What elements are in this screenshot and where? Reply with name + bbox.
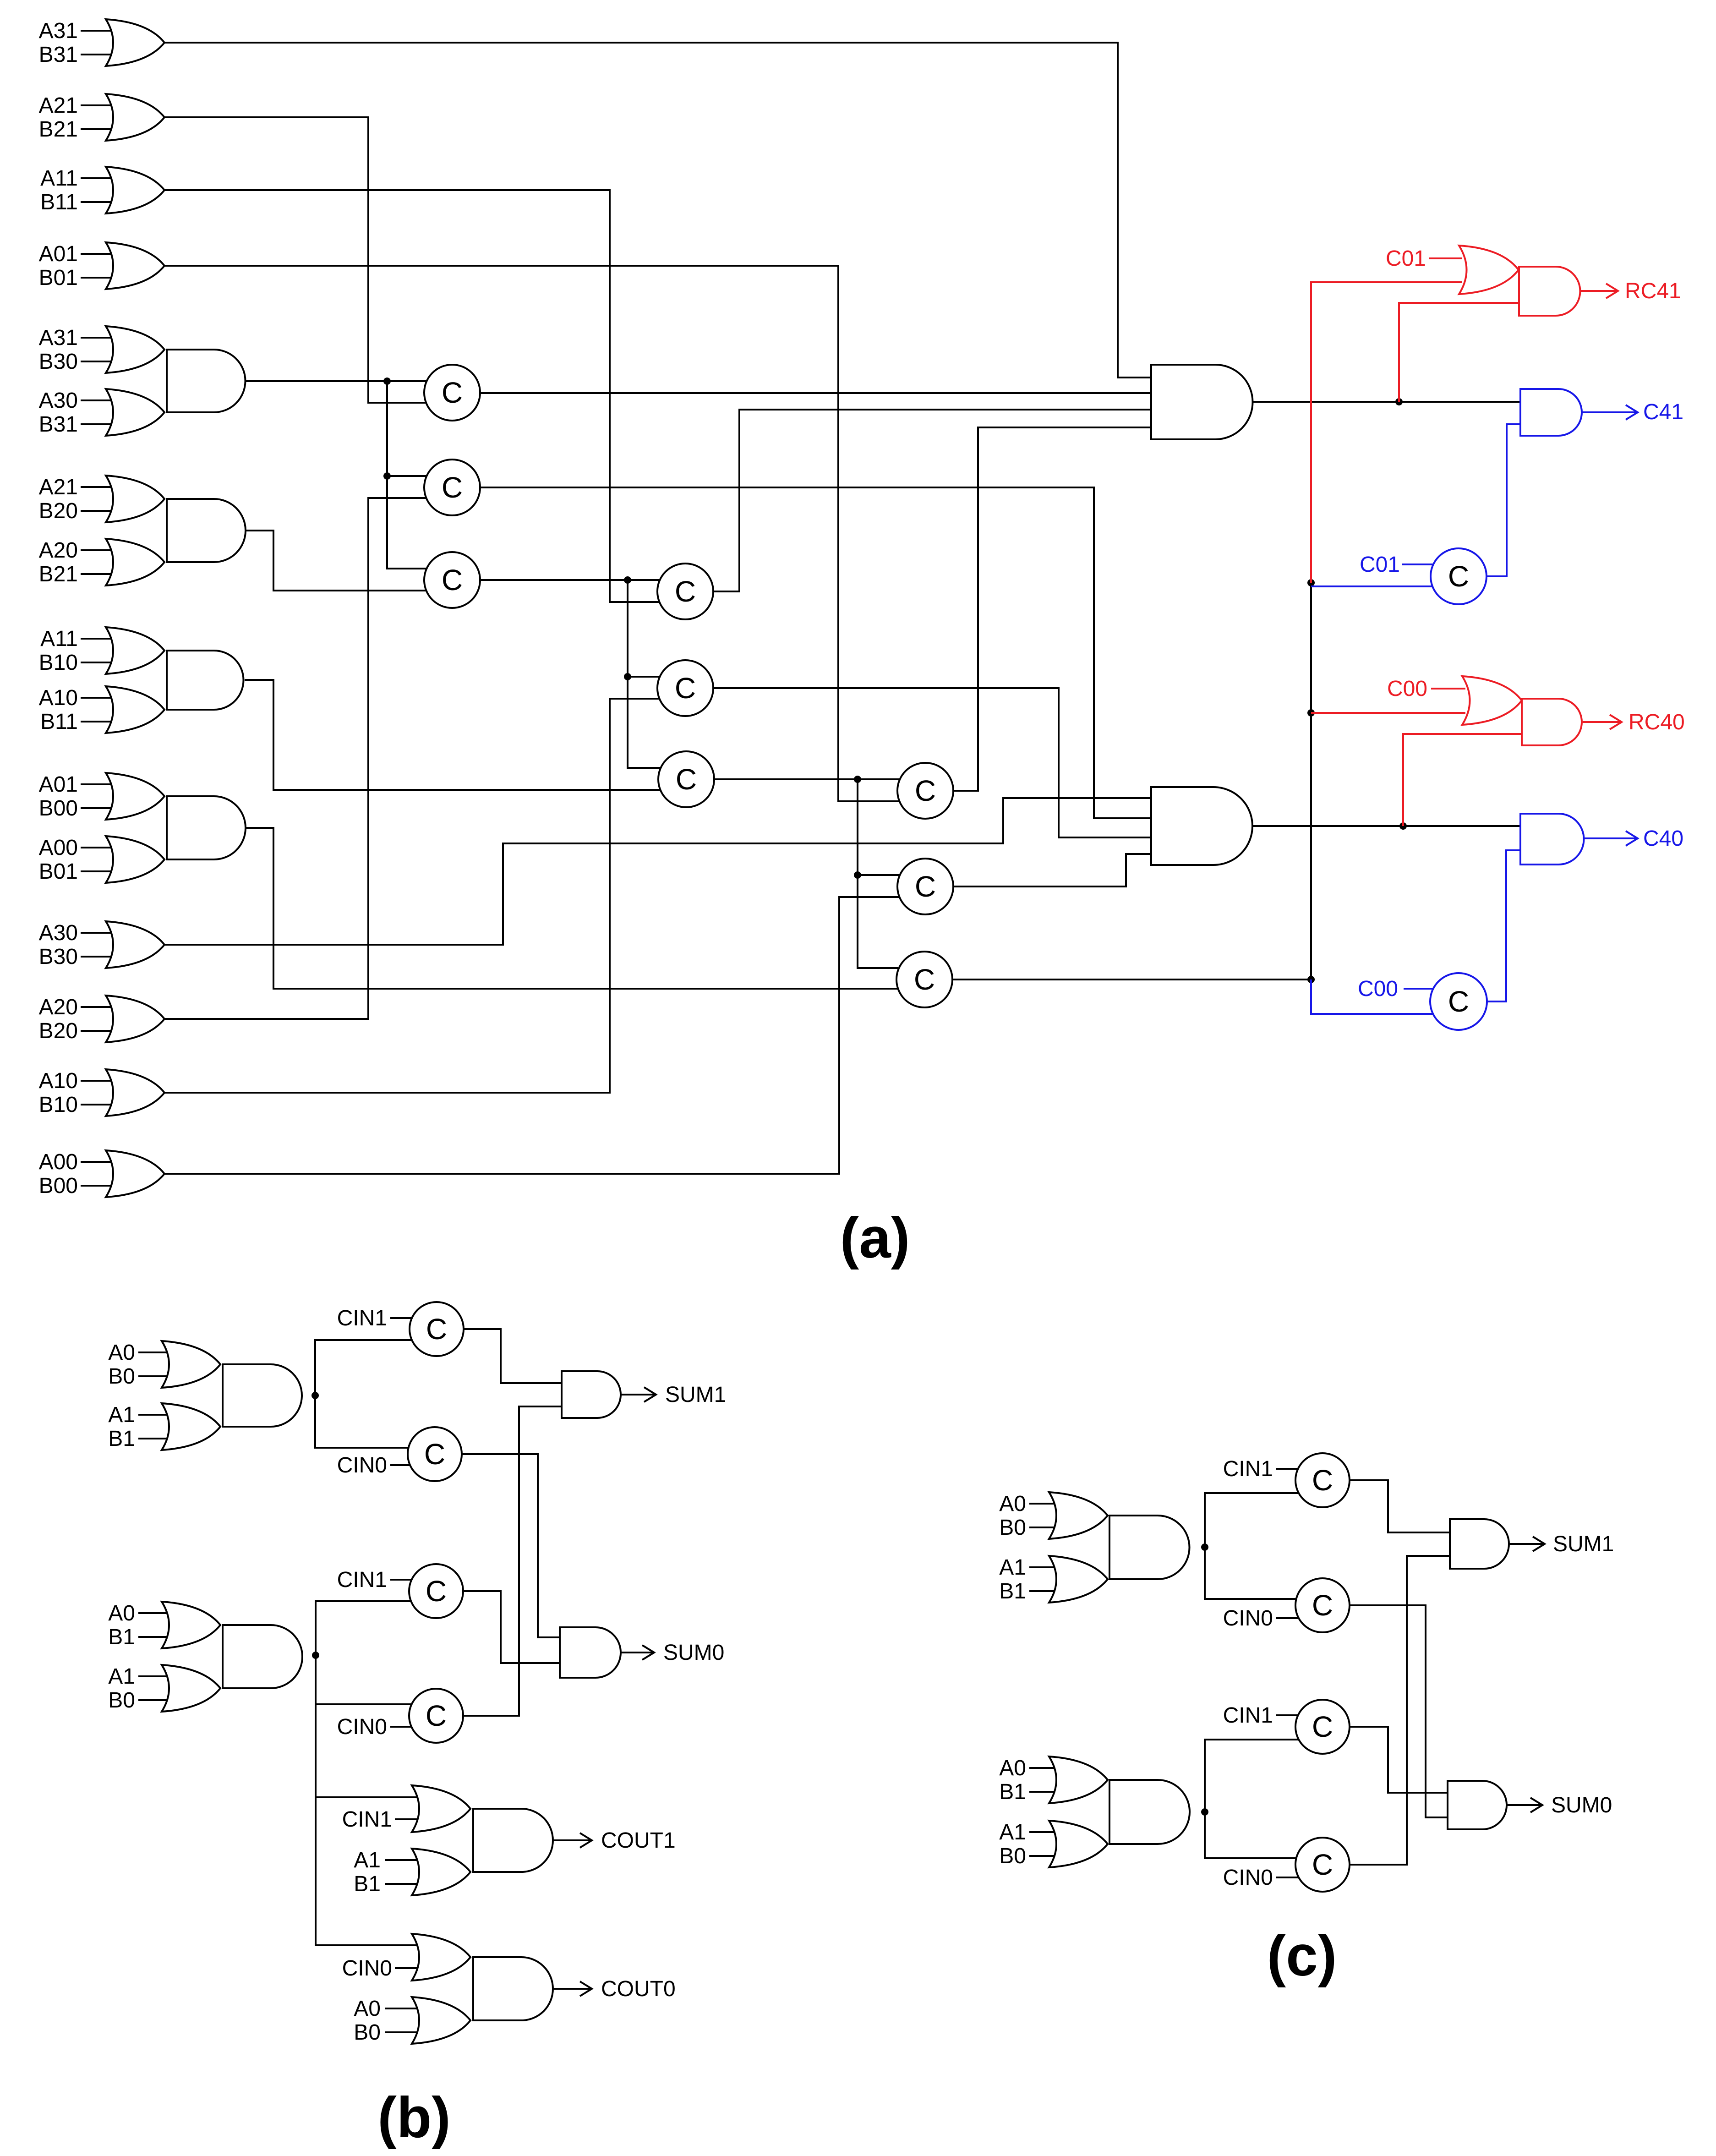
wire SUM0 arrow xyxy=(619,1645,654,1660)
wire C23 net down to C32.in1 xyxy=(858,779,899,875)
carry cell C01 (blue) xyxy=(1431,548,1486,604)
or-gate A11|B11 xyxy=(106,167,164,213)
svg-text:A31: A31 xyxy=(39,326,78,350)
wire input stub B00 P4 xyxy=(81,807,118,809)
wire C23 out to C31.in1 xyxy=(714,778,899,780)
svg-text:(c): (c) xyxy=(1267,1924,1337,1988)
or-gate c1b xyxy=(1049,1556,1108,1603)
wire b1 branch to CIN1a xyxy=(315,1340,413,1395)
wire row A11|B11 to C21.in2 xyxy=(164,190,660,602)
or-gate c2b xyxy=(1049,1821,1108,1867)
svg-text:C00: C00 xyxy=(1358,977,1398,1001)
carry cell CIN1a xyxy=(410,1302,464,1356)
or-gate A00|B00 low xyxy=(106,1150,164,1197)
wire CIN0 stub cout0 xyxy=(395,1967,442,1969)
wire input stub B01 P4 xyxy=(81,870,118,872)
svg-text:A1: A1 xyxy=(108,1403,135,1427)
svg-text:CIN0: CIN0 xyxy=(337,1453,387,1477)
wire N4 to C01-cell.in2 xyxy=(1311,586,1433,587)
junction N4/C33-out xyxy=(1307,976,1315,983)
and-gate P2 xyxy=(167,499,246,562)
svg-text:A01: A01 xyxy=(39,242,78,266)
svg-text:CIN1: CIN1 xyxy=(337,1568,387,1592)
svg-text:COUT0: COUT0 xyxy=(601,1977,676,2001)
wire input stub B31 xyxy=(81,54,118,55)
svg-text:SUM1: SUM1 xyxy=(665,1383,726,1407)
and-gate c1 xyxy=(1109,1516,1190,1579)
svg-text:C: C xyxy=(675,575,696,608)
svg-text:SUM0: SUM0 xyxy=(1551,1793,1612,1817)
svg-text:B10: B10 xyxy=(39,651,78,675)
wire N4 red riser to RC41-OR.in2 xyxy=(1311,282,1462,583)
svg-text:C: C xyxy=(426,1313,447,1346)
wire C01 stub to C01-cell xyxy=(1402,564,1433,565)
or-gate COUT1-OR2 xyxy=(412,1849,470,1895)
junction N4/RC40-OR xyxy=(1307,709,1315,717)
svg-text:A01: A01 xyxy=(39,772,78,797)
wire input stub B0 b1 xyxy=(138,1375,175,1377)
or-gate A01|B00 xyxy=(106,773,164,820)
wire b2 branch to CIN0b xyxy=(316,1655,411,1704)
svg-text:B31: B31 xyxy=(39,412,78,437)
wire c1 branch to CIN1c xyxy=(1205,1493,1299,1547)
svg-text:C: C xyxy=(1448,985,1469,1018)
svg-text:CIN0: CIN0 xyxy=(337,1715,387,1739)
svg-text:C: C xyxy=(675,672,696,705)
svg-text:A30: A30 xyxy=(39,389,78,413)
wire C23 net down to C33.in1 xyxy=(858,875,898,968)
or-gate COUT0-OR2 xyxy=(412,1997,470,2044)
junction C13-net/C21 xyxy=(624,576,631,584)
carry cell CIN0d xyxy=(1295,1838,1350,1892)
wire CIN0c out to SUM0c.in2 xyxy=(1350,1605,1448,1817)
wire input stub B30 P1 xyxy=(81,361,118,362)
junction G40-out/RC40 xyxy=(1399,822,1407,830)
or-gate c2a xyxy=(1049,1757,1108,1803)
carry cell CIN0c xyxy=(1295,1578,1350,1632)
and-gate COUT0 xyxy=(473,1957,553,2020)
svg-text:B0: B0 xyxy=(108,1688,135,1713)
wire row A00|B00 to C32.in2 xyxy=(164,897,899,1174)
svg-text:C41: C41 xyxy=(1643,400,1683,424)
and-gate c2 xyxy=(1109,1780,1190,1844)
wire input stub B20 P2 xyxy=(81,510,118,512)
wire SUM0c arrow xyxy=(1507,1798,1542,1812)
svg-text:C01: C01 xyxy=(1386,246,1426,271)
wire COUT1 arrow xyxy=(553,1833,592,1848)
wire A1 stub cout1 xyxy=(385,1859,442,1861)
wire input stub A20 P2 xyxy=(81,549,118,551)
svg-text:SUM0: SUM0 xyxy=(663,1641,724,1665)
svg-text:A10: A10 xyxy=(39,1069,78,1093)
svg-text:B1: B1 xyxy=(354,1872,381,1896)
or-gate A20|B20 low xyxy=(106,996,164,1042)
carry cell C13 xyxy=(424,552,480,608)
svg-text:B1: B1 xyxy=(108,1625,135,1649)
svg-text:(b): (b) xyxy=(377,2086,451,2150)
wire input stub B1 c2 xyxy=(1029,1791,1066,1793)
wire C32 out to G40.in4 xyxy=(953,854,1151,886)
svg-text:B31: B31 xyxy=(39,43,78,67)
wire RC40 output arrow xyxy=(1583,715,1622,729)
carry cell CIN0b xyxy=(409,1689,463,1743)
wire CIN0 stub d xyxy=(1276,1877,1299,1878)
svg-text:A1: A1 xyxy=(999,1820,1026,1844)
wire C21 out to G41.in3 xyxy=(713,410,1151,591)
wire input stub A0 c2 xyxy=(1029,1767,1066,1769)
carry cell C22 xyxy=(657,660,713,716)
wire P1 out to C11.in1 xyxy=(245,380,426,382)
wire input stub B21 P2 xyxy=(81,573,118,575)
wire input stub B0 b2 xyxy=(138,1699,175,1701)
or-gate A00|B01 xyxy=(106,836,164,883)
and-gate b1 xyxy=(223,1364,302,1427)
svg-text:C: C xyxy=(442,471,463,504)
and-gate G40 (4-input) xyxy=(1151,787,1252,865)
svg-text:COUT1: COUT1 xyxy=(601,1828,676,1853)
wire CIN0 stub c xyxy=(1276,1617,1299,1619)
svg-text:(a): (a) xyxy=(840,1206,910,1270)
svg-text:B30: B30 xyxy=(39,945,78,969)
or-gate RC40-OR (red) xyxy=(1462,676,1522,725)
wire CIN1c out to SUM1c.in1 xyxy=(1350,1480,1450,1532)
svg-text:C: C xyxy=(442,564,463,596)
wire input stub A0 b2 xyxy=(138,1612,175,1614)
wire input stub A11 xyxy=(81,177,118,179)
wire CIN1b out to SUM0.in2 xyxy=(463,1591,560,1663)
wire input stub A0 c1 xyxy=(1029,1503,1066,1505)
or-gate A21|B21 xyxy=(106,94,164,141)
wire N4 to RC40-OR.in2 xyxy=(1311,712,1465,714)
or-gate COUT0-OR1 xyxy=(412,1934,470,1981)
or-gate A30|B30 low xyxy=(106,921,164,968)
svg-text:A0: A0 xyxy=(354,1997,381,2021)
and-gate C40-AND (blue) xyxy=(1520,814,1584,865)
wire P4 out to C33.in2 xyxy=(245,828,898,989)
wire CIN0 stub a xyxy=(390,1464,411,1466)
wire input stub A01 xyxy=(81,253,118,255)
wire C12 out to G40.in2 xyxy=(480,487,1151,818)
and-gate P3 xyxy=(167,651,244,710)
svg-text:CIN1: CIN1 xyxy=(342,1807,392,1832)
junction G41-out/RC41 xyxy=(1395,398,1403,405)
or-gate b2a xyxy=(162,1602,220,1648)
junction b2 out xyxy=(312,1652,319,1659)
svg-text:C: C xyxy=(914,963,935,996)
wire row A20|B20 to C12.in2 xyxy=(164,498,426,1019)
svg-text:A00: A00 xyxy=(39,1150,78,1174)
svg-text:B0: B0 xyxy=(108,1364,135,1389)
wire input stub B21 xyxy=(81,128,118,130)
or-gate A31|B30 xyxy=(106,326,164,373)
svg-text:A1: A1 xyxy=(999,1555,1026,1580)
svg-text:B1: B1 xyxy=(999,1780,1026,1804)
svg-text:C: C xyxy=(1448,560,1469,593)
svg-text:C: C xyxy=(442,376,463,409)
wire input stub B11 xyxy=(81,201,118,203)
wire C41 output arrow xyxy=(1582,405,1638,420)
junction P1-net/C12 xyxy=(383,472,391,480)
and-gate P4 xyxy=(167,796,246,859)
wire input stub A21 xyxy=(81,104,118,106)
svg-text:C00: C00 xyxy=(1387,677,1427,701)
wire B0 stub cout0 xyxy=(385,2031,442,2033)
and-gate b2 xyxy=(223,1625,302,1688)
wire A0 stub cout0 xyxy=(385,2008,442,2009)
wire CIN1 stub c xyxy=(1276,1468,1299,1470)
svg-text:C: C xyxy=(1312,1848,1333,1881)
svg-text:B20: B20 xyxy=(39,1019,78,1043)
wire input stub A00 low xyxy=(81,1161,118,1163)
or-gate A10|B11 xyxy=(106,686,164,733)
wire P2 out to C13.in2 xyxy=(245,531,426,591)
wire CIN1a out to SUM1.in1 xyxy=(464,1329,562,1383)
svg-text:B01: B01 xyxy=(39,266,78,290)
svg-text:B21: B21 xyxy=(39,562,78,586)
carry cell C21 xyxy=(657,564,713,619)
and-gate RC41-AND (red) xyxy=(1519,267,1580,316)
svg-text:B0: B0 xyxy=(999,1844,1026,1868)
wire c2 branch to CIN0d xyxy=(1205,1812,1299,1858)
svg-text:CIN1: CIN1 xyxy=(1223,1457,1273,1481)
or-gate A11|B10 xyxy=(106,627,164,674)
and-gate SUM1c xyxy=(1450,1519,1509,1569)
carry cell C00 (blue) xyxy=(1430,973,1487,1030)
svg-text:C: C xyxy=(426,1699,447,1732)
wire input stub A1 c1 xyxy=(1029,1566,1066,1568)
wire CIN0d out to SUM1c.in2 xyxy=(1350,1556,1450,1865)
or-gate c1a xyxy=(1049,1492,1108,1539)
carry cell C11 xyxy=(424,365,480,421)
wire c2 branch to CIN1d xyxy=(1205,1740,1299,1812)
wire b2 net down to COUT1-OR.in1 xyxy=(316,1704,442,1797)
svg-text:A0: A0 xyxy=(108,1341,135,1365)
wire input stub B00 low xyxy=(81,1185,118,1187)
svg-text:A31: A31 xyxy=(39,19,78,43)
and-gate COUT1 xyxy=(473,1809,553,1872)
wire C11 out to G41.in2 xyxy=(480,392,1151,394)
wire CIN0a out to SUM0.in1 xyxy=(462,1454,560,1637)
svg-text:B11: B11 xyxy=(40,710,78,734)
svg-text:B0: B0 xyxy=(354,2020,381,2045)
wire CIN0b out to SUM1.in2 xyxy=(463,1406,562,1716)
wire input stub A10 P3 xyxy=(81,697,118,699)
wire N4 blue drop to C00-cell.in2 xyxy=(1311,980,1433,1014)
svg-text:CIN0: CIN0 xyxy=(1223,1606,1273,1631)
wire B1 stub cout1 xyxy=(385,1883,442,1885)
wire C31 out to G41.in4 xyxy=(953,427,1151,791)
svg-text:CIN1: CIN1 xyxy=(337,1306,387,1330)
svg-text:B01: B01 xyxy=(39,859,78,884)
wire input stub B0 c1 xyxy=(1029,1527,1066,1528)
svg-text:B00: B00 xyxy=(39,796,78,821)
wire G41 out to C41-AND.in1 xyxy=(1252,401,1520,403)
wire input stub A31 xyxy=(81,30,118,32)
or-gate A01|B01 xyxy=(106,242,164,289)
wire input stub A1 c2 xyxy=(1029,1831,1066,1833)
carry cell CIN1d xyxy=(1295,1700,1350,1754)
wire input stub A11 P3 xyxy=(81,638,118,640)
wire b2 net down to COUT0-OR.in1 xyxy=(316,1797,442,1945)
wire b2 branch to CIN1b xyxy=(316,1601,413,1655)
wire row A10|B10 to C22.in2 xyxy=(164,699,660,1093)
svg-text:A11: A11 xyxy=(40,166,78,191)
carry cell C33 xyxy=(896,952,952,1007)
wire input stub B01 xyxy=(81,277,118,279)
svg-text:CIN1: CIN1 xyxy=(1223,1703,1273,1728)
carry cell CIN0a xyxy=(408,1427,462,1481)
svg-text:C: C xyxy=(915,774,936,807)
svg-text:B1: B1 xyxy=(999,1579,1026,1603)
carry cell CIN1b xyxy=(409,1564,463,1618)
wire CIN1 stub b xyxy=(390,1579,413,1581)
wire COUT0 arrow xyxy=(553,1981,592,1996)
wire C00 stub to C00-cell xyxy=(1404,988,1433,990)
or-gate A10|B10 low xyxy=(106,1069,164,1116)
wire G41-out red branch to RC41-AND.in2 xyxy=(1399,303,1522,402)
and-gate P1 xyxy=(167,350,246,412)
svg-text:B11: B11 xyxy=(40,190,78,214)
wire SUM1c arrow xyxy=(1509,1537,1545,1551)
wire C13 net down to C22.in1 xyxy=(628,580,660,677)
and-gate SUM0c xyxy=(1448,1781,1507,1829)
wire input stub A0 b1 xyxy=(138,1352,175,1353)
carry cell C32 xyxy=(897,859,953,914)
svg-text:A1: A1 xyxy=(108,1664,135,1689)
svg-text:C: C xyxy=(1312,1710,1333,1743)
wire CIN1 stub a xyxy=(390,1317,413,1319)
or-gate A20|B21 xyxy=(106,539,164,586)
or-gate A30|B31 xyxy=(106,389,164,436)
and-gate SUM1b xyxy=(562,1371,621,1418)
svg-text:A0: A0 xyxy=(999,1756,1026,1780)
and-gate SUM0b xyxy=(560,1627,621,1678)
wire input stub A01 P4 xyxy=(81,783,118,785)
wire input stub B11 P3 xyxy=(81,721,118,722)
svg-text:CIN0: CIN0 xyxy=(342,1956,392,1981)
svg-text:B30: B30 xyxy=(39,350,78,374)
wire input stub B10 P3 xyxy=(81,662,118,663)
junction c2 out xyxy=(1201,1808,1208,1816)
svg-text:A1: A1 xyxy=(354,1848,381,1872)
wire CIN1d out to SUM0c.in1 xyxy=(1350,1727,1448,1793)
wire input stub A10 low xyxy=(81,1080,118,1082)
or-gate b1b xyxy=(162,1403,220,1450)
junction C13-net/C22 xyxy=(624,673,631,680)
wire input stub B20 low xyxy=(81,1030,118,1032)
wire input stub A1 b2 xyxy=(138,1675,175,1677)
wire input stub A00 P4 xyxy=(81,847,118,848)
or-gate A31|B31 xyxy=(106,19,164,66)
svg-text:B00: B00 xyxy=(39,1174,78,1198)
svg-text:SUM1: SUM1 xyxy=(1553,1532,1614,1556)
junction P1-net/C11 xyxy=(383,378,391,385)
or-gate b2b xyxy=(162,1665,220,1712)
wire P1 net down to C13.in1 xyxy=(387,476,426,569)
svg-text:C: C xyxy=(915,870,936,903)
wire input stub B31 P1 xyxy=(81,423,118,425)
svg-text:A10: A10 xyxy=(39,686,78,710)
svg-text:A20: A20 xyxy=(39,538,78,563)
wire CIN0 stub b xyxy=(390,1726,411,1728)
svg-text:B1: B1 xyxy=(108,1427,135,1451)
wire node N4 riser (black) xyxy=(1310,583,1312,980)
wire CIN1 stub d xyxy=(1276,1714,1299,1716)
carry cell C31 xyxy=(897,763,953,819)
wire input stub B10 low xyxy=(81,1104,118,1105)
wire input stub A31 P1 xyxy=(81,337,118,339)
svg-text:C: C xyxy=(1312,1589,1333,1622)
wire input stub B0 c2 xyxy=(1029,1855,1066,1857)
wire input stub B30 low xyxy=(81,956,118,958)
junction N4/C01-cell xyxy=(1307,579,1315,586)
svg-text:C: C xyxy=(424,1438,445,1471)
wire C13 net down to C23.in1 xyxy=(628,677,661,768)
svg-text:C: C xyxy=(426,1575,447,1608)
wire G40-out red branch to RC40-AND.in2 xyxy=(1403,734,1525,826)
junction C23-net/C31 xyxy=(854,776,861,783)
svg-text:B0: B0 xyxy=(999,1516,1026,1540)
svg-text:RC41: RC41 xyxy=(1625,279,1681,303)
svg-text:A00: A00 xyxy=(39,836,78,860)
or-gate COUT1-OR1 xyxy=(412,1785,470,1832)
svg-text:C40: C40 xyxy=(1643,826,1683,851)
and-gate G41 (4-input) xyxy=(1151,365,1253,439)
svg-text:C: C xyxy=(1312,1464,1333,1497)
wire P1 net down to C12.in1 xyxy=(387,381,426,476)
svg-text:C: C xyxy=(676,763,697,796)
svg-text:RC40: RC40 xyxy=(1629,710,1685,734)
svg-text:A21: A21 xyxy=(39,475,78,499)
wire P3 out to C23.in2 xyxy=(245,680,661,790)
svg-text:A30: A30 xyxy=(39,921,78,945)
junction c1 out xyxy=(1201,1543,1208,1551)
carry cell CIN1c xyxy=(1295,1453,1350,1507)
wire row A01|B01 to C31.in2 xyxy=(164,266,899,801)
and-gate RC40-AND (red) xyxy=(1522,699,1582,745)
wire input stub B1 b2 xyxy=(138,1636,175,1638)
wire input stub A30 low xyxy=(81,932,118,934)
wire C33 out to node N4 xyxy=(952,979,1311,980)
wire c1 branch to CIN0c xyxy=(1205,1547,1299,1599)
wire C40 output arrow xyxy=(1582,831,1638,846)
wire row A30|B30 to G40.in1 xyxy=(164,798,1151,945)
svg-text:A0: A0 xyxy=(108,1601,135,1625)
svg-text:CIN0: CIN0 xyxy=(1223,1866,1273,1890)
carry cell C23 xyxy=(658,751,714,807)
wire input stub A21 P2 xyxy=(81,486,118,488)
wire C00-cell out to C40-AND.in2 xyxy=(1487,850,1520,1001)
wire C22 out to G40.in3 xyxy=(713,688,1151,837)
svg-text:B10: B10 xyxy=(39,1093,78,1117)
svg-text:A20: A20 xyxy=(39,995,78,1019)
wire SUM1 arrow xyxy=(621,1387,656,1402)
or-gate A21|B20 xyxy=(106,476,164,522)
junction C23-net/C32 xyxy=(854,871,861,879)
svg-text:C01: C01 xyxy=(1360,553,1400,577)
carry cell C12 xyxy=(424,460,480,515)
wire RC41 output arrow xyxy=(1580,284,1618,298)
svg-text:A11: A11 xyxy=(40,627,78,651)
wire input stub B1 c1 xyxy=(1029,1590,1066,1592)
wire C01 stub to RC41-OR.in1 xyxy=(1429,257,1462,259)
wire b1 branch to CIN0a xyxy=(315,1395,411,1448)
svg-text:B20: B20 xyxy=(39,499,78,523)
svg-text:A0: A0 xyxy=(999,1492,1026,1516)
wire input stub B1 b1 xyxy=(138,1438,175,1439)
wire C13 out to C21.in1 xyxy=(480,579,660,581)
svg-text:A21: A21 xyxy=(39,93,78,118)
